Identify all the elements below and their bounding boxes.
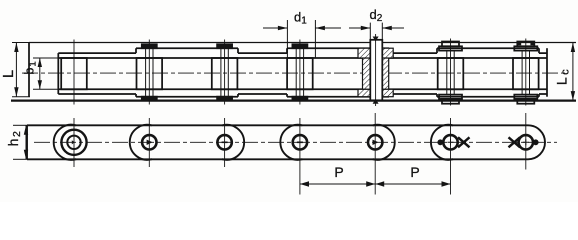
node: pin 5 centerline bbox=[375, 34, 377, 106]
wire: chain right end bbox=[546, 48, 548, 96]
boss arc and roller circles at pin 74 bbox=[54, 125, 87, 160]
dimension h2 bbox=[13, 125, 27, 159]
roller R1 (pin 74, plan view) bbox=[61, 58, 87, 89]
pin P5 (long pin, d2) bbox=[370, 40, 382, 101]
node: centerline pin 149 bbox=[148, 118, 150, 167]
wire: inner-plate top edges bbox=[58, 52, 547, 54]
wire: top envelope line (pin-end plane, plan view) bbox=[29, 42, 576, 44]
svg-text:P: P bbox=[334, 164, 343, 180]
dimension Lc bbox=[572, 43, 574, 101]
section at pin 5: hatched bushing/roller and plates bbox=[358, 48, 393, 97]
pin 5 end arrows bbox=[373, 37, 379, 104]
wire: plate step verticals top bbox=[136, 48, 539, 53]
dimension b1 bbox=[33, 58, 58, 89]
node: pin 6 centerline bbox=[450, 39, 452, 106]
node: centerline pin 526 bbox=[525, 113, 527, 170]
node: pin 4 centerline bbox=[299, 40, 301, 105]
roller R3 (pin 224.6) bbox=[212, 58, 238, 89]
rivet X mark right of pin 450 bbox=[458, 137, 470, 147]
boss arc left + hole at pin 450 bbox=[431, 125, 458, 160]
rivet X mark left of pin 526 bbox=[509, 137, 521, 147]
roller R7 (pin 525.8) bbox=[513, 58, 539, 89]
wire: inner gap bottom edge b1 bbox=[58, 88, 547, 90]
roller R6 (pin 450.5) bbox=[438, 58, 464, 89]
plate bar left end bbox=[26, 125, 28, 159]
wire: left end vertical of plan view bbox=[28, 43, 30, 97]
dimension P (right) bbox=[375, 183, 450, 185]
wire: plate step verticals bottom bbox=[136, 94, 539, 97]
node: pin 2 centerline bbox=[148, 40, 150, 105]
boss arc right + hole at pin 375 bbox=[368, 125, 395, 160]
rivet dot right of pin 526 bbox=[533, 139, 539, 145]
pin 7 cotter ends bbox=[518, 42, 521, 45]
wire: bottom envelope line (plan view) bbox=[11, 99, 576, 101]
pin P3 with heads bbox=[217, 44, 232, 100]
node: pin 1 centerline bbox=[73, 40, 75, 105]
dimension d2 bbox=[349, 23, 404, 40]
node: centerline pin 225 bbox=[224, 118, 226, 167]
node: chain centerline (plan view) bbox=[22, 72, 566, 74]
pin P7 with clip heads (connecting link) bbox=[514, 42, 537, 104]
roller R2 (pin 149.3) bbox=[137, 58, 163, 89]
hole at pin 526 bbox=[519, 135, 533, 149]
rivet dot left of pin 450 bbox=[437, 139, 443, 145]
wire: outer-plate bottom edges bbox=[136, 96, 539, 98]
dimension d1 bbox=[263, 20, 341, 58]
pin P4 with heads bbox=[292, 44, 307, 100]
boss arc right + hole at pin 225 bbox=[217, 125, 244, 160]
pin P6 with clip heads (connecting link) bbox=[439, 42, 462, 104]
boss arc left + hole at pin 149 bbox=[130, 125, 157, 160]
wire: outer-plate top edges bbox=[136, 47, 539, 49]
node: pin 7 centerline bbox=[525, 39, 527, 106]
svg-text:P: P bbox=[410, 164, 419, 180]
node: pin 3 centerline bbox=[224, 40, 226, 105]
plate bar top edge bbox=[27, 124, 528, 126]
node: centerline pin 450 extended for P bbox=[450, 118, 452, 195]
svg-text:L: L bbox=[1, 70, 17, 78]
wire: inner plate left end bbox=[57, 53, 59, 94]
wire: inner-plate bottom edges bbox=[58, 93, 547, 95]
capsule right end bbox=[528, 125, 545, 159]
dimension P (left) bbox=[300, 183, 375, 185]
pin P2 with heads bbox=[142, 44, 157, 100]
plate bar bottom edge bbox=[27, 158, 528, 160]
wire: inner gap top edge b1 bbox=[58, 57, 547, 59]
node: bottom view centerline bbox=[34, 141, 557, 143]
boss arc left + hole at pin 300 bbox=[280, 125, 307, 160]
node: centerline pin 375 extended for P bbox=[374, 113, 376, 195]
dimension L bbox=[12, 43, 30, 97]
roller R4 (pin 299.9) bbox=[287, 58, 313, 89]
node: centerline pin 300 extended for P bbox=[299, 118, 301, 195]
node: centerline pin 74 bbox=[73, 118, 75, 167]
